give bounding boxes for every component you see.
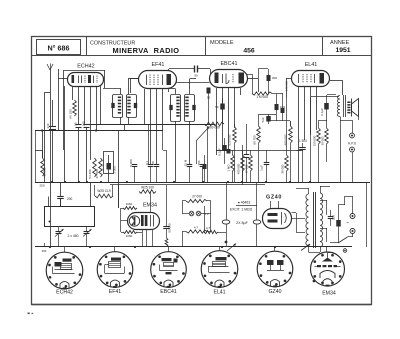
wire EL41 grid left: [286, 78, 292, 98]
mains plug pin 2: [350, 229, 355, 234]
svg-text:1 µF: 1 µF: [260, 165, 264, 171]
GZ40 top wires: [271, 201, 279, 209]
tube EL41 envelope: [292, 71, 330, 87]
svg-text:EL41: EL41: [213, 290, 225, 296]
resistor 4,7 low: [186, 230, 207, 233]
wire pot right down: [207, 126, 209, 182]
svg-text:88 700: 88 700: [253, 135, 257, 145]
svg-text:EF41: EF41: [152, 62, 165, 68]
svg-text:EL41: EL41: [305, 62, 318, 68]
resistor 53800: [93, 158, 97, 177]
pot wiper arm: [196, 127, 209, 164]
mains transformer secondary: [320, 193, 323, 247]
wire right box left: [311, 97, 340, 183]
resistor 1M lower EM34: [123, 231, 137, 234]
wire y121 h: [268, 120, 283, 122]
svg-text:53 800: 53 800: [88, 169, 92, 179]
svg-text:456: 456: [243, 47, 255, 54]
capacitor 1uF hang: [264, 150, 270, 182]
wire x222 low: [222, 145, 224, 150]
capacitor 5n0: [266, 114, 271, 124]
wire left col a: [42, 130, 44, 158]
mains wires: [338, 196, 353, 214]
svg-text:1nF: 1nF: [46, 123, 50, 128]
svg-text:2X 8µF: 2X 8µF: [236, 221, 248, 225]
resistor 1M hang: [231, 150, 235, 182]
svg-text:EXCIT. 1 MΩΩ: EXCIT. 1 MΩΩ: [230, 208, 253, 212]
trimmer cap left: [55, 227, 64, 248]
header divider constructeur: [86, 37, 88, 56]
antenna: [47, 64, 53, 79]
EF41 pin wires: [145, 89, 169, 164]
resistor 480000 hang: [241, 150, 245, 185]
capacitor 50 at x157: [154, 165, 160, 183]
wire EF41 grid left: [131, 78, 139, 93]
EBC41 pin wires: [217, 88, 241, 155]
wire y120 h: [319, 120, 327, 122]
wire EM34 top: [150, 192, 152, 213]
speaker cone: [352, 99, 359, 117]
wire ECH42 grid left: [58, 69, 68, 131]
svg-text:50: 50: [207, 96, 211, 100]
svg-text:1MΩ: 1MΩ: [126, 202, 133, 206]
capacitor 5 000 at x135: [132, 165, 138, 183]
mains plug pin 1: [350, 214, 355, 219]
svg-text:GZ40: GZ40: [269, 289, 282, 295]
resistor 1M left of EM34: [123, 207, 137, 210]
svg-text:5 000: 5 000: [129, 159, 133, 167]
capacitor 4n det: [281, 98, 285, 121]
tube ECH42 envelope: [68, 73, 104, 87]
svg-text:ANNEE: ANNEE: [330, 40, 350, 46]
socket GZ40: [257, 251, 293, 287]
svg-text:50: 50: [74, 122, 78, 126]
svg-text:4,7: 4,7: [206, 226, 211, 230]
svg-text:30 000: 30 000: [321, 136, 325, 145]
wire top em34 socket: [326, 247, 328, 252]
main HT rail y182: [35, 182, 370, 184]
wire 276 down: [276, 114, 278, 121]
wire w25 connect: [95, 185, 113, 196]
socket EL41: [201, 251, 238, 288]
svg-text:EBC41: EBC41: [160, 289, 177, 295]
wire x118: [118, 131, 120, 208]
heater drops: [65, 247, 275, 252]
svg-text:EBC41: EBC41: [220, 61, 237, 67]
EF41 electrodes: [147, 74, 172, 85]
capacitor 200 ebc: [267, 69, 271, 94]
svg-text:~: ~: [346, 220, 349, 225]
HP jack 2: [350, 147, 355, 152]
svg-text:1 500: 1 500: [299, 139, 307, 143]
svg-text:50 000: 50 000: [168, 223, 172, 233]
tick 250 heater: [42, 243, 47, 253]
resistor 27 000: [186, 199, 207, 202]
EM34 bars: [141, 215, 154, 227]
wire h y114: [259, 114, 276, 116]
tube EM34 envelope: [128, 213, 160, 230]
secondary rail y185: [110, 184, 265, 186]
capacitor 250 at x203: [200, 165, 206, 183]
heater rail y247: [35, 246, 352, 248]
svg-text:0,1µF: 0,1µF: [320, 108, 324, 116]
wire left frame vertical: [35, 131, 37, 183]
gang dot: [49, 221, 51, 223]
svg-text:47 000: 47 000: [245, 164, 249, 173]
capacitor 200 under rail: [57, 182, 64, 206]
svg-text:200: 200: [272, 76, 277, 80]
wire x124: [124, 124, 126, 131]
resistor 47000 hang: [249, 150, 253, 182]
EL41 electrodes: [299, 73, 325, 84]
capacitor 50 under ECH42: [76, 125, 82, 183]
wire right col x364: [366, 182, 368, 247]
header divider annee: [322, 37, 324, 56]
wire det vert b: [282, 94, 284, 99]
wire EL41 plate to OT: [330, 80, 343, 95]
wire hp down: [352, 152, 354, 182]
volume potentiometer: [204, 122, 224, 126]
speaker coil: [347, 102, 350, 114]
wire EBC41 plate right: [247, 79, 259, 93]
gang leads up: [49, 182, 91, 206]
svg-text:88 000: 88 000: [281, 164, 285, 173]
wire osc grid: [64, 86, 66, 182]
IF transformer T2 primary tank: [169, 95, 180, 122]
svg-text:500: 500: [332, 215, 336, 220]
capacitor 140: [84, 125, 90, 183]
resistor 30000: [325, 120, 329, 162]
oscillator can outline: [104, 152, 114, 174]
IF transformer T2 secondary tank: [185, 95, 196, 122]
socket EF41: [97, 252, 133, 288]
svg-text:W25 100: W25 100: [141, 186, 154, 190]
capacitor 50000: [163, 185, 170, 238]
transformer bottom leads: [309, 246, 321, 253]
wire det link: [247, 69, 268, 94]
capacitor 0,1uF mid: [222, 138, 227, 164]
wire 290 top: [283, 121, 291, 127]
svg-text:2 x 460: 2 x 460: [67, 234, 78, 238]
EM34 pin wires: [147, 230, 153, 248]
capacitor C 1nF left: [49, 100, 56, 182]
svg-text:N° 686: N° 686: [47, 43, 69, 52]
capacitor 0,1 at x151: [148, 165, 154, 183]
svg-text:200: 200: [67, 197, 73, 201]
electrolytic cap 1: [222, 182, 230, 247]
dark box 228: [227, 149, 231, 154]
tube EF41 envelope: [139, 71, 177, 89]
svg-text:0,1µF: 0,1µF: [218, 148, 222, 156]
label 46463 underline: [236, 205, 257, 207]
resistor 47000a: [99, 158, 103, 177]
wire OT bottom down: [340, 120, 342, 182]
wire h y150: [163, 150, 166, 152]
capacitor 100 det: [275, 94, 279, 115]
svg-text:500 000: 500 000: [208, 126, 220, 130]
output transformer core: [344, 95, 346, 117]
svg-text:520 000: 520 000: [228, 134, 232, 145]
svg-text:140 000: 140 000: [285, 81, 289, 92]
wire x242 down: [242, 145, 244, 182]
ECH42 shield lines: [64, 70, 106, 150]
resistor 15000 left: [41, 150, 45, 176]
socket EM34: [311, 252, 345, 287]
svg-text:EM34: EM34: [143, 203, 157, 209]
wire x246 down: [246, 124, 248, 155]
wire x148 down: [148, 124, 150, 164]
No 686 cell box: [37, 40, 81, 55]
svg-text:ECH42: ECH42: [56, 290, 73, 296]
fuse arrow 2: [301, 244, 310, 251]
input coil resistor AV250: [73, 100, 77, 116]
svg-text:480 000: 480 000: [284, 134, 288, 145]
capacitor 0,1uF el41: [324, 95, 336, 121]
wire EF41 plate to EBC41 grid: [176, 82, 210, 84]
wire psu h: [204, 206, 226, 233]
svg-text:27 000: 27 000: [192, 195, 202, 199]
capacitor 1000 blk: [107, 155, 112, 182]
left rail stub y150: [35, 150, 42, 152]
wire em34 left links: [121, 208, 143, 247]
svg-text:15 000: 15 000: [43, 167, 47, 177]
svg-text:480 000: 480 000: [237, 163, 241, 174]
svg-text:250: 250: [42, 249, 47, 253]
EM34 eye marks: [132, 217, 136, 226]
EBC41 electrodes: [215, 73, 245, 84]
trimmer cap right: [83, 227, 92, 248]
terminal circle bottom: [343, 249, 347, 253]
wire x163 down: [162, 131, 164, 151]
svg-text:250: 250: [39, 184, 44, 188]
resistor 520000: [233, 124, 237, 182]
electrolytic cap 2: [253, 182, 261, 247]
svg-text:EF41: EF41: [109, 289, 122, 295]
IF transformer T1 primary tank: [111, 95, 122, 118]
capacitor 22 M at x189.5: [187, 165, 193, 183]
resistor 1M det: [252, 92, 272, 95]
svg-text:6,3: 6,3: [205, 212, 209, 216]
capacitor 1500: [296, 143, 306, 182]
tube EBC41 envelope: [210, 70, 248, 88]
svg-text:5n0: 5n0: [261, 117, 265, 122]
GZ40 electrodes: [268, 212, 287, 225]
svg-text:1 000: 1 000: [113, 166, 117, 174]
mains switch: [330, 234, 353, 244]
svg-text:GZ40: GZ40: [266, 195, 282, 201]
capacitor small x205: [203, 155, 207, 182]
junction dots rails: [41, 129, 311, 248]
wire x166 down: [166, 150, 168, 182]
border frame: [32, 37, 372, 305]
header separator line: [32, 55, 372, 57]
AVC rail y124: [85, 124, 215, 126]
svg-text:W25 CL9: W25 CL9: [97, 189, 111, 193]
svg-text:1 MΩ: 1 MΩ: [227, 164, 231, 172]
junction psu: [225, 241, 228, 244]
svg-text:140: 140: [82, 121, 86, 126]
capacitor 5000 mid: [220, 98, 225, 124]
socket ECH42: [46, 252, 83, 289]
wire em34 rail link: [118, 185, 120, 208]
transformer top leads: [296, 186, 330, 194]
capacitor blk psu: [336, 205, 341, 243]
frame bottom edge: [32, 304, 372, 306]
wire h y150 mid: [216, 150, 286, 152]
registration marks: [28, 313, 34, 315]
wire grid el41 link: [286, 98, 303, 151]
EM34 eye circle: [129, 216, 139, 226]
svg-text:MODELE: MODELE: [210, 40, 234, 46]
ECH42 pin wires: [73, 86, 101, 160]
svg-text:1 M 065: 1 M 065: [256, 95, 268, 99]
svg-text:50: 50: [194, 74, 198, 78]
wire lamp links: [182, 201, 211, 248]
capacitor x246: [244, 155, 250, 183]
dial lamps: [189, 211, 209, 216]
svg-text:22 M: 22 M: [184, 159, 188, 166]
tuning gang box: [45, 207, 95, 227]
mains transformer core: [314, 192, 316, 248]
resistor 47 psu: [204, 230, 218, 233]
svg-text:4,7: 4,7: [194, 226, 199, 230]
svg-text:EM34: EM34: [322, 291, 336, 297]
wire h 222: [216, 150, 228, 152]
capacitor 500 psu: [328, 210, 334, 226]
capacitor 50 grid ebc: [207, 88, 211, 125]
svg-text:1951: 1951: [335, 47, 350, 54]
resistor W25 CL9 inline: [95, 194, 113, 198]
wire antenna down: [50, 78, 52, 247]
svg-text:150 000: 150 000: [313, 135, 317, 146]
header divider modele: [205, 37, 207, 56]
fuse arrow: [227, 244, 236, 252]
svg-text:50: 50: [215, 105, 219, 109]
EL41 pin wires: [299, 87, 317, 183]
coupling capacitor C top: [169, 66, 211, 75]
GZ40 right wires: [292, 213, 306, 233]
resistor 88000 hang: [285, 150, 289, 182]
svg-text:1MΩ: 1MΩ: [126, 234, 133, 238]
svg-text:MINERVA RADIO: MINERVA RADIO: [113, 46, 180, 55]
svg-text:H.P.S: H.P.S: [348, 142, 356, 146]
T2 wires: [169, 79, 196, 183]
resistor RETE inline: [139, 190, 156, 194]
svg-text:47 000: 47 000: [95, 169, 99, 179]
socket EBC41: [151, 252, 187, 288]
wire antenna stub: [44, 93, 50, 183]
HP jack 1: [350, 133, 355, 138]
output transformer primary: [337, 96, 340, 117]
ECH42 electrodes: [72, 75, 98, 83]
svg-text:● 46463: ● 46463: [238, 201, 251, 205]
sec tap wires: [320, 200, 327, 242]
resistor small x167: [165, 238, 168, 247]
wire det vert a: [272, 93, 283, 95]
IF transformer T1 secondary tank: [127, 95, 138, 118]
mains transformer primary: [306, 194, 309, 246]
resistor 150000: [317, 120, 321, 182]
resistor 88700: [257, 114, 261, 182]
speaker frame bar: [351, 99, 353, 117]
T1 wires: [103, 78, 139, 125]
tube GZ40 envelope: [263, 209, 292, 229]
svg-text:AV 250: AV 250: [69, 109, 73, 119]
svg-text:250: 250: [197, 160, 201, 165]
resistor 480000: [289, 121, 293, 182]
svg-text:ECH42: ECH42: [77, 64, 94, 70]
wire right col x360: [358, 117, 360, 121]
OT wires: [340, 117, 353, 134]
svg-text:50: 50: [151, 161, 155, 165]
bus line y130.5: [35, 130, 163, 132]
